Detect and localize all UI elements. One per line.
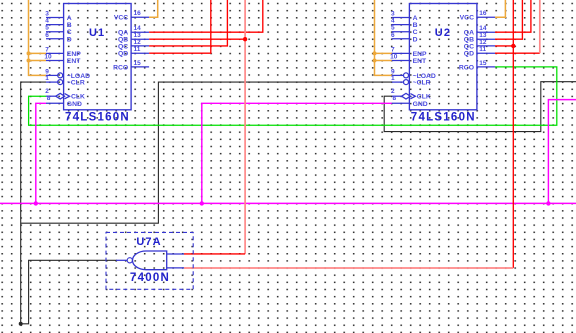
wire: red vertical QC net to U7A input B	[512, 0, 514, 268]
wire: orange net U1 VCC	[149, 0, 158, 17]
svg-text:3: 3	[45, 11, 49, 18]
wire: black net U2 CLK	[384, 82, 576, 132]
svg-text:GND: GND	[413, 101, 428, 108]
U2 pin numbers	[390, 10, 487, 102]
junction: black dot bottom left	[19, 322, 23, 326]
svg-text:7400N: 7400N	[130, 272, 170, 284]
U1 pin labels	[67, 15, 128, 108]
wire: orange net U2 VCC	[495, 0, 505, 17]
junction: red dot QC net	[511, 44, 515, 48]
svg-text:10: 10	[44, 54, 52, 61]
svg-text:VCC: VCC	[114, 15, 128, 22]
svg-text:6: 6	[45, 32, 49, 39]
gate pins	[116, 254, 184, 268]
wire: magenta GND net	[0, 100, 576, 204]
gate body	[132, 251, 166, 270]
svg-text:A: A	[67, 15, 72, 22]
svg-text:ENP: ENP	[413, 51, 427, 58]
U1 pin numbers	[44, 10, 141, 102]
svg-text:7: 7	[45, 46, 49, 53]
wire: red U1 QB	[149, 38, 245, 40]
svg-text:16: 16	[479, 10, 487, 17]
U2 left pins	[392, 18, 416, 104]
svg-text:U1: U1	[89, 27, 105, 39]
svg-text:QD: QD	[464, 51, 474, 58]
svg-text:6: 6	[391, 32, 395, 39]
svg-text:~CLR: ~CLR	[413, 80, 431, 87]
wire: red to U7A input A	[184, 253, 245, 255]
svg-text:ENP: ENP	[67, 51, 81, 58]
svg-text:7: 7	[391, 46, 395, 53]
svg-text:14: 14	[479, 25, 487, 32]
wire: orange net to U1 ENP/ENT/~LOAD	[29, 0, 47, 75]
svg-text:15: 15	[134, 60, 142, 67]
svg-text:U7A: U7A	[136, 236, 161, 248]
svg-text:12: 12	[479, 39, 487, 46]
svg-text:A: A	[413, 15, 418, 22]
svg-text:U2: U2	[435, 27, 451, 39]
wire: red U1 QA	[149, 0, 263, 32]
wire: red U2 QA	[495, 0, 531, 32]
svg-text:1: 1	[45, 75, 49, 82]
svg-text:QC: QC	[118, 43, 128, 50]
svg-text:12: 12	[134, 39, 142, 46]
junction: orange dots U1	[27, 51, 31, 55]
svg-text:B: B	[67, 22, 72, 29]
svg-text:8: 8	[392, 95, 396, 102]
svg-text:3: 3	[391, 11, 395, 18]
svg-text:D: D	[67, 36, 72, 43]
svg-text:15: 15	[479, 60, 487, 67]
wire: black net U1 ~CLR to U7A output	[21, 82, 117, 324]
svg-text:C: C	[67, 29, 72, 36]
wire: red U1 QC	[149, 0, 227, 46]
junction: orange dots U2	[373, 51, 377, 55]
svg-text:5: 5	[391, 25, 395, 32]
wire: black net U2 ~CLR branch	[21, 82, 392, 223]
svg-text:QC: QC	[464, 43, 474, 50]
junction: red dot QB net	[243, 37, 247, 41]
wire: salmon vertical QD net	[539, 0, 541, 53]
wire: salmon vertical QB net to U7A input A	[244, 0, 246, 254]
svg-text:10: 10	[390, 54, 398, 61]
svg-text:QD: QD	[118, 51, 128, 58]
svg-text:1: 1	[391, 75, 395, 82]
svg-text:CLK: CLK	[417, 94, 431, 101]
svg-text:8: 8	[47, 95, 51, 102]
svg-text:16: 16	[134, 10, 142, 17]
svg-text:4: 4	[391, 18, 395, 25]
svg-text:~CLR: ~CLR	[67, 80, 85, 87]
svg-text:ENT: ENT	[67, 58, 81, 65]
svg-text:11: 11	[134, 46, 141, 53]
NAND gate U7A 7400N (mirrored)	[106, 232, 193, 289]
svg-text:D: D	[413, 36, 418, 43]
wire: red U2 QC	[495, 45, 513, 47]
svg-text:74LS160N: 74LS160N	[65, 112, 130, 124]
svg-text:CLK: CLK	[71, 94, 85, 101]
svg-text:5: 5	[45, 25, 49, 32]
svg-text:11: 11	[479, 46, 486, 53]
svg-text:C: C	[413, 29, 418, 36]
svg-text:RCO: RCO	[113, 64, 128, 71]
svg-text:QA: QA	[118, 30, 128, 37]
svg-text:GND: GND	[67, 101, 82, 108]
svg-text:VCC: VCC	[460, 15, 474, 22]
svg-text:B: B	[413, 22, 418, 29]
junction: magenta dots	[34, 201, 38, 205]
U2 pin labels	[413, 15, 474, 108]
svg-text:4: 4	[45, 18, 49, 25]
U1 left pins	[46, 18, 70, 104]
svg-text:74LS160N: 74LS160N	[411, 112, 476, 124]
wire: orange net to U2 ENP/ENT/~LOAD	[375, 0, 392, 75]
wire: red U2 QB	[495, 0, 522, 39]
svg-text:RCO: RCO	[459, 64, 474, 71]
IC U2 74LS160N	[409, 4, 477, 124]
svg-text:QA: QA	[464, 30, 474, 37]
IC U1 74LS160N	[64, 4, 132, 124]
gate output bubble	[127, 258, 132, 263]
svg-text:14: 14	[134, 25, 142, 32]
wire: red U1 QD	[149, 0, 211, 53]
wire: red U2 QD	[495, 52, 540, 54]
wire: green net U2 RCO to U1 CLK	[29, 67, 557, 125]
U1 right pins	[131, 17, 149, 67]
svg-text:ENT: ENT	[413, 58, 427, 65]
U2 right pins	[477, 17, 495, 67]
